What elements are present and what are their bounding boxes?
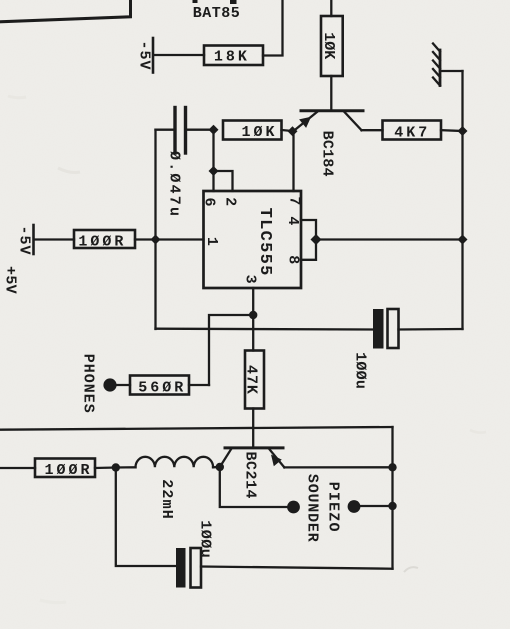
wire inductor to collector node bbox=[213, 466, 220, 469]
svg-text:1: 1 bbox=[203, 237, 220, 246]
wire 10K top to image edge bbox=[330, 0, 332, 16]
wire to pin 2 bbox=[214, 171, 233, 191]
op-amp U1 TLC555 body bbox=[201, 191, 303, 288]
node junction 100R/inductor/C3 bbox=[112, 463, 120, 471]
scan smudges (paper artifacts) bbox=[8, 96, 486, 603]
node junction bracket bbox=[311, 234, 322, 245]
wire 47K to BC214 base bbox=[252, 409, 254, 448]
wire node to inductor bbox=[116, 466, 136, 469]
svg-text:47K: 47K bbox=[243, 365, 260, 395]
svg-text:4K7: 4K7 bbox=[394, 124, 430, 141]
wire 100R to node bbox=[135, 238, 156, 240]
wire bracket pins 4 and 8 bbox=[301, 220, 316, 260]
resistor 560R bbox=[130, 376, 189, 397]
svg-text:1ØØu: 1ØØu bbox=[352, 352, 369, 389]
wire 4K7 to right rail bbox=[441, 129, 463, 132]
transistor Q1 BC184 bbox=[294, 111, 364, 177]
svg-text:-5V: -5V bbox=[16, 225, 33, 255]
svg-text:4: 4 bbox=[284, 216, 301, 225]
wire pin3 node to 560R bbox=[209, 315, 253, 385]
node junction pin 3 bbox=[249, 311, 257, 319]
wire bracket to right rail bbox=[316, 238, 463, 240]
svg-text:Ø.Ø47u: Ø.Ø47u bbox=[166, 151, 183, 218]
svg-text:6: 6 bbox=[201, 197, 218, 206]
wire pin 3 down bbox=[252, 288, 254, 315]
wire image edge to 100R bbox=[0, 467, 35, 469]
inductor L1 22mH bbox=[136, 457, 214, 468]
wire bottom rail left part bbox=[156, 328, 374, 331]
svg-text:SOUNDER: SOUNDER bbox=[304, 474, 321, 543]
svg-text:1ØK: 1ØK bbox=[241, 124, 277, 141]
svg-text:PHONES: PHONES bbox=[80, 354, 97, 414]
node PHONES terminal bbox=[103, 378, 116, 391]
svg-text:1ØØR: 1ØØR bbox=[78, 234, 126, 251]
node junction inductor/collector bbox=[216, 463, 224, 471]
wire BC214 emitter to right rail bbox=[284, 466, 392, 468]
wire 560R to riser bbox=[189, 384, 209, 386]
wire C3 to right rail bbox=[201, 567, 393, 569]
svg-text:PIEZO: PIEZO bbox=[324, 482, 341, 533]
wire ground to right rail bbox=[440, 70, 463, 72]
node junction right rail bbox=[458, 235, 468, 245]
wire left vertical to C1 bbox=[156, 129, 176, 131]
node piezo terminal left bbox=[287, 501, 300, 514]
wire 18K to top rail bbox=[263, 0, 283, 56]
wire 10K bottom to BC184 base bbox=[330, 76, 332, 110]
wire node down to pins 6/2 node bbox=[212, 130, 214, 171]
node piezo terminal right bbox=[348, 500, 361, 513]
resistor 4K7 bbox=[383, 121, 442, 142]
wire to pin 6 bbox=[212, 171, 214, 191]
wire bottom-right rail (vertical) bbox=[391, 427, 393, 569]
node junction pin1/left rail bbox=[151, 235, 161, 245]
label PIEZO SOUNDER bbox=[304, 474, 342, 543]
svg-text:+5V: +5V bbox=[1, 266, 18, 294]
resistor 100R (middle) bbox=[74, 230, 135, 251]
wire collector node down to piezo bbox=[220, 467, 287, 507]
svg-text:7: 7 bbox=[286, 196, 303, 205]
node -5V (top) bbox=[136, 38, 154, 73]
wire emitter node down to pin 7 bbox=[292, 131, 294, 191]
ground (chassis) bbox=[433, 44, 440, 86]
svg-text:8: 8 bbox=[284, 255, 301, 264]
svg-text:BC214: BC214 bbox=[242, 452, 259, 500]
svg-text:BAT85: BAT85 bbox=[193, 5, 241, 22]
resistor 47K (vertical) bbox=[243, 351, 264, 409]
svg-text:2: 2 bbox=[221, 197, 238, 206]
resistor 100R (bottom) bbox=[35, 459, 95, 480]
node junction piezo/right rail bbox=[388, 502, 396, 510]
wire right rail (vertical) bbox=[461, 71, 463, 329]
node -5V (middle) bbox=[16, 225, 34, 256]
wire node to pin 1 bbox=[156, 238, 204, 240]
label +5V bbox=[1, 266, 18, 294]
wire node down to C3 bbox=[116, 468, 176, 567]
svg-text:18K: 18K bbox=[214, 48, 250, 65]
resistor 10K (vertical, top) bbox=[320, 16, 343, 76]
enclosure box top-left (partial) bbox=[0, 0, 131, 22]
svg-text:1ØK: 1ØK bbox=[320, 32, 337, 59]
diode D1 BAT85 lead stubs (cut off at top) bbox=[193, 0, 237, 4]
node junction emitter/right rail bbox=[388, 463, 396, 471]
wire piezo right terminal to rail bbox=[360, 505, 392, 507]
wire -5V to 100R bbox=[35, 238, 75, 240]
wire 10K to emitter node bbox=[282, 130, 293, 131]
label 22mH bbox=[158, 479, 175, 520]
svg-text:1ØØu: 1ØØu bbox=[197, 520, 214, 558]
capacitor C3 100u (bottom) bbox=[176, 520, 214, 587]
wire pin3 node to 47K bbox=[252, 315, 254, 351]
label PHONES bbox=[80, 354, 97, 414]
resistor 18K bbox=[204, 46, 263, 66]
svg-text:22mH: 22mH bbox=[158, 479, 175, 520]
label BAT85 bbox=[193, 5, 241, 22]
wire PHONES to 560R bbox=[117, 384, 131, 386]
svg-text:TLC555: TLC555 bbox=[255, 208, 274, 277]
wire BC184 collector to 4K7 bbox=[362, 129, 383, 131]
svg-text:-5V: -5V bbox=[136, 40, 153, 70]
wire 100R to node bbox=[95, 466, 116, 469]
capacitor C2 100u bbox=[352, 309, 399, 389]
wire second rail (horizontal, bottom stage) bbox=[0, 427, 393, 430]
svg-text:BC184: BC184 bbox=[319, 131, 336, 177]
resistor 10K (horizontal) bbox=[223, 121, 282, 142]
node junction at BC184 emitter bbox=[288, 126, 298, 136]
wire C2 to right rail bbox=[399, 328, 463, 331]
wire left vertical rail bbox=[154, 130, 156, 329]
capacitor C1 0.047u bbox=[166, 108, 186, 219]
node junction 4K7/right rail bbox=[458, 126, 468, 136]
node junction C1/10K bbox=[209, 125, 219, 135]
wire C1 to node bbox=[186, 129, 214, 131]
svg-text:56ØR: 56ØR bbox=[138, 379, 186, 396]
node junction pins 6/2 bbox=[209, 166, 219, 176]
svg-text:1ØØR: 1ØØR bbox=[44, 462, 92, 479]
transistor Q2 BC214 bbox=[220, 448, 284, 499]
wire -5V to 18K bbox=[154, 54, 204, 56]
